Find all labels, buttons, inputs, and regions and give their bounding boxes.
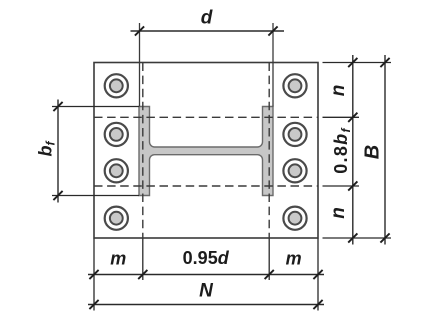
svg-text:0.8bf: 0.8bf — [331, 127, 353, 174]
dimension N: tick right — [313, 300, 322, 309]
I-beam section (column) — [139, 107, 273, 196]
bolt B1 top-left — [105, 74, 128, 97]
dimension B: line — [384, 55, 386, 245]
dimension N: tick left — [89, 300, 98, 309]
right extensions: gauge bottom — [323, 185, 360, 187]
bottom extension: left gauge — [142, 239, 144, 281]
dimension d: tick left — [135, 26, 144, 35]
dimension B: tick top — [380, 58, 389, 67]
bolt B7 right row3 — [283, 159, 306, 182]
dimension d: tick right — [268, 26, 277, 35]
svg-text:B: B — [362, 145, 384, 159]
bolt B6 right row2 — [283, 123, 306, 146]
tick m left outer — [89, 270, 98, 279]
right extensions: gauge top — [323, 116, 360, 118]
svg-text:bf: bf — [36, 141, 58, 157]
wire: solid line above right flange (d extension) — [272, 23, 274, 107]
base plate — [94, 63, 318, 239]
wire: solid line above left flange (d extension) — [139, 23, 141, 107]
svg-text:m: m — [110, 249, 126, 269]
tick gauge bottom — [348, 181, 357, 190]
tick gauge top — [348, 113, 357, 122]
svg-text:m: m — [286, 249, 302, 269]
svg-text:d: d — [201, 8, 213, 29]
bolt B5 top-right — [283, 74, 306, 97]
dashed gauge line top horizontal — [94, 116, 318, 118]
dimension N: line — [88, 304, 324, 306]
dashed gauge line right vertical — [268, 63, 270, 239]
dimension b_f: tick bottom — [53, 191, 62, 200]
dashed gauge line bottom horizontal — [94, 185, 318, 187]
tick m right outer — [313, 270, 322, 279]
dimension d: line — [131, 30, 285, 32]
dimension b_f: tick top — [53, 102, 62, 111]
bolt B3 left row3 — [105, 159, 128, 182]
tick n top start — [348, 58, 357, 67]
dimension b_f: extension top — [52, 106, 139, 108]
svg-text:0.95d: 0.95d — [183, 248, 230, 268]
tick bottom edge — [348, 233, 357, 242]
dimension n/0.8bf/n: line — [352, 55, 354, 245]
dimension b_f: extension bottom — [52, 195, 139, 197]
dimension b_f: line — [57, 100, 59, 203]
bottom extension: plate right corner — [317, 239, 319, 311]
dimension B: tick bottom — [380, 233, 389, 242]
dimension m/0.95d/m: line — [88, 274, 324, 276]
tick m left inner — [138, 270, 147, 279]
right extensions: top edge — [323, 62, 392, 64]
bolt B2 left row2 — [105, 123, 128, 146]
right extensions: bottom edge — [323, 237, 392, 239]
bottom extension: plate left corner — [93, 239, 95, 311]
bottom extension: right gauge — [268, 239, 270, 281]
dashed gauge line left vertical — [142, 63, 144, 239]
tick m right inner — [265, 270, 274, 279]
bolt B4 bottom-left — [105, 207, 128, 230]
svg-text:n: n — [328, 207, 349, 219]
svg-text:n: n — [328, 85, 349, 97]
bolt B8 bottom-right — [283, 207, 306, 230]
svg-text:N: N — [199, 281, 214, 302]
